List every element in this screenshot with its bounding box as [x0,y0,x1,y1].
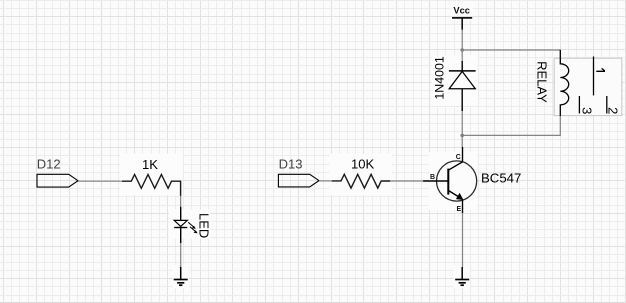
svg-text:1K: 1K [142,157,158,172]
svg-text:3: 3 [580,107,595,114]
svg-text:10K: 10K [351,157,374,172]
connector D12 [37,174,78,187]
wire node A to diode cathode [461,50,463,61]
wire D13 to R2 [319,180,332,182]
transistor Q1 BC547 [423,147,477,213]
wire LED to ground [180,243,182,267]
wire diode anode to node B [461,111,463,135]
base lead [423,180,448,182]
node A junction [460,48,464,52]
pin 1 label [596,68,605,71]
svg-text:LED: LED [197,213,212,238]
svg-text:2: 2 [606,107,621,114]
wire R2 to base [390,180,423,182]
node B junction [460,134,464,138]
LED emission arrows [188,222,194,227]
svg-text:D12: D12 [37,157,61,172]
wire node A to relay coil [462,49,560,51]
wire R1 to LED [180,196,182,207]
svg-text:BC547: BC547 [481,171,521,186]
svg-text:Vcc: Vcc [453,6,470,16]
relay contact pin 2 [606,96,608,114]
part background plates [120,1,478,288]
wire emitter to ground [462,213,464,267]
wire Vcc to node A [461,30,463,51]
wire relay coil to node B [462,116,560,135]
relay contact pin 1 [593,57,595,96]
power symbol Vcc [452,6,472,30]
wire node B to collector [461,135,463,147]
relay K1 [554,50,622,116]
svg-text:RELAY: RELAY [534,61,549,103]
relay contact pin 3 [578,96,580,114]
diode 1N4001 [449,61,476,111]
ground left [174,267,188,285]
svg-text:B: B [430,174,435,181]
base bar [447,169,449,195]
emitter lead with arrow [448,190,460,198]
resistor R1 1K [122,175,181,196]
svg-text:E: E [456,206,461,213]
svg-text:D13: D13 [279,157,303,172]
LED D1 [174,207,197,243]
connector D13 [278,174,319,187]
ground right [455,267,469,285]
relay coil [560,50,568,116]
collector lead [448,147,462,170]
svg-text:1N4001: 1N4001 [432,56,446,100]
wire D12 to R1 [78,180,122,182]
resistor R2 10K [332,174,391,188]
svg-text:C: C [456,154,461,161]
